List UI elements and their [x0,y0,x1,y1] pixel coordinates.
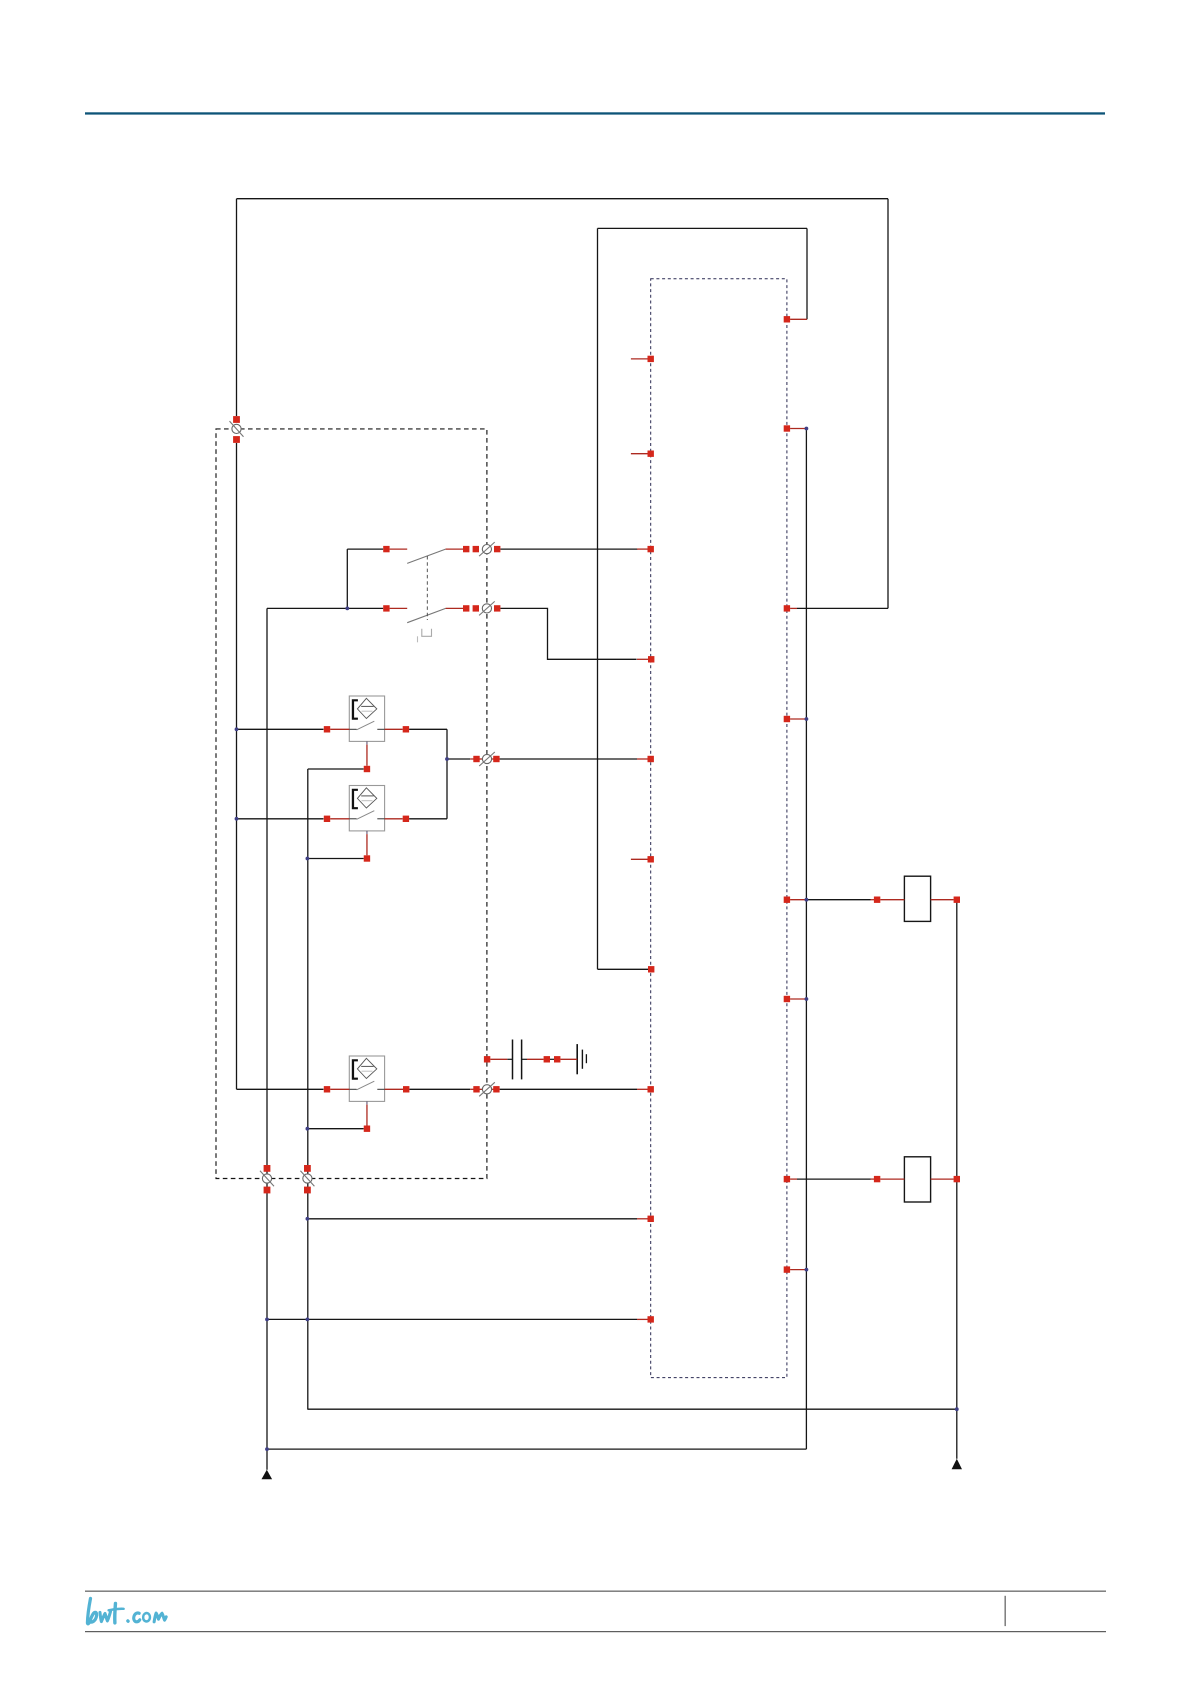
wire relay K1 right to ground bus [956,900,958,1459]
wire left riser 2 below S2 [266,608,268,1469]
red lead S1 right [446,548,463,550]
switch actuator symbol [422,629,432,637]
wire sensor B1 output drop [409,728,447,730]
wire inner frame right drop to X2:1 [806,228,808,319]
wire collector of B1/B2 [446,729,448,819]
dashed enclosure (controller, blue) [651,279,787,1378]
connector circle X4 [482,754,491,763]
connector circle X1 [232,424,241,433]
terminals relay K2 row [874,1176,880,1182]
wire inner frame bottom into X2 left edge [598,968,649,970]
wire sensor B2 output rise [409,818,447,820]
red leads relay K2 [871,1178,875,1180]
junction B1 feed tap [235,727,239,731]
wire S2 output jog [500,608,636,659]
red approach X2:8 [637,1218,648,1220]
wire inner frame top [598,227,808,229]
red approach X2:4b [637,658,648,660]
header rule [85,112,1105,114]
junction bus top X2:2 [805,427,809,431]
wire feed to sensor B3 [237,1088,324,1090]
footer separator [1005,1596,1006,1626]
terminal S1 left [383,546,389,552]
junction X2:9 row on riser2 [265,1318,269,1322]
connector circle S2 out [482,604,491,613]
red approach X2:4 [637,548,648,550]
terminals S1 right pair [463,546,469,552]
junction ground return on riser2 [265,1447,269,1451]
wire feed to sensor B1 [237,728,324,730]
red approach X2:7 [637,1088,648,1090]
red leads relay K1 [871,899,875,901]
dashed enclosure (left cabinet) [216,429,487,1179]
wire riser2 to X2:9 row [267,1318,637,1320]
red lead S2 left [390,607,408,609]
terminal X6 lower [264,1187,271,1194]
wire right bus return to riser2 [267,1448,806,1450]
proximity sensor B3 [349,1056,384,1105]
terminals relay K1 row [874,897,880,903]
wire X4 to X2:5 [500,758,637,760]
wire X3:1 feed from bus [806,899,870,901]
wire outer supply loop top [237,198,889,200]
proximity sensor B2 [349,786,384,835]
wire switch S2 row from left riser [267,607,383,609]
terminal S1 out [494,546,500,552]
wire X5 to X2:7 [500,1088,637,1090]
red lead X2:h to bus [790,1269,806,1271]
wire X3:2 row black segment [797,1178,871,1180]
wire outer loop into terminal X2:3 [797,607,888,609]
terminals B2 [324,816,330,822]
red lead X2:3 [790,607,797,609]
relay K1 [904,876,930,921]
terminals at X5 [473,1086,479,1092]
shield / functional earth symbol [576,1044,578,1074]
red lead X2:1 to inner frame [790,318,807,320]
terminal X7 lower [304,1187,311,1194]
red leads capacitor row [490,1058,507,1060]
wire feed to sensor B2 [237,818,324,820]
junction S1 drop on S2 row [345,607,349,611]
junction X2:9 row on riser3 [306,1318,310,1322]
wire switch S1 pole feed [347,548,383,550]
red lead B3 bottom [366,1105,368,1126]
red lead S1 left [390,548,408,550]
red lead into B2 [330,818,349,820]
red lead B2 bottom [366,834,368,855]
red lead B1 bottom [366,745,368,766]
red lead out B1 [385,728,403,730]
terminals B3 [324,1086,330,1092]
junction X2:8 row on riser3 [306,1217,310,1221]
red stub X2:b [631,453,648,455]
wire link S1 pole to S2 row [346,549,348,608]
capacitor C1 leads [507,1058,512,1060]
wire S1 output to X2:4 [500,548,637,550]
wire riser3 to X2:8 row [307,1218,637,1220]
red lead X2:d to bus [790,718,806,720]
connector circle X7 [303,1174,312,1183]
switch S1 blade [407,549,445,563]
connector circle S1 out [482,545,491,554]
red stub X2:a [631,358,648,360]
wire controller right bus [805,429,807,1450]
junction bus X2:d [805,717,809,721]
junction bus K1 feed [805,898,809,902]
terminals X2 left edge [648,356,654,362]
terminal S2 left [383,605,389,611]
red lead S2 right [446,607,463,609]
junction ground bus right [955,1407,959,1411]
junction B1/B2 collector [445,757,449,761]
terminal X7 upper [304,1165,311,1172]
junction B3 return on riser3 [306,1127,310,1131]
terminals X2 right edge [784,316,790,322]
terminal X6 upper [264,1165,271,1172]
capacitor C1 plates [512,1040,514,1080]
terminals B1 [324,726,330,732]
wire B1/B2 collector to connector X4 [447,758,470,760]
red lead into B3 [330,1088,349,1090]
red leads at connector X5 [470,1088,482,1090]
junction B2 feed tap [235,817,239,821]
terminals S2 right pair [463,605,469,611]
bwt.com logo [87,1599,166,1624]
red lead X2:2 to bus [790,428,806,430]
red lead X2:e to bus [790,899,806,901]
wire B3 bottom return [307,1128,363,1130]
red lead out B2 [385,818,403,820]
junction bus X2:h [805,1268,809,1272]
junction bus X2:f [805,997,809,1001]
wire left feeder upper segment [236,199,238,416]
red lead into B1 [330,728,349,730]
terminal S2 out [494,605,500,611]
red lead X2:g [790,1178,797,1180]
wire left feeder below connector X1 [236,443,238,1089]
red leads at connector X4 [470,758,482,760]
wire left riser 3 (sensor commons) [307,769,309,1409]
proximity sensor B1 [349,696,384,745]
junction B2 return on riser3 [306,857,310,861]
wire B3 output to connector X5 [409,1088,470,1090]
red approach X2:5 [637,758,648,760]
red lead X2:f to bus [790,998,806,1000]
terminal X1 lower [233,436,240,443]
footer rule bottom [85,1631,1106,1632]
footer rule top [85,1591,1106,1592]
off-page arrow right [952,1459,962,1470]
connector circle X6 [262,1174,271,1183]
terminals at X4 [473,756,479,762]
off-page arrow left [262,1470,273,1480]
wire B2 bottom return [307,858,363,860]
wire B1 bottom return [308,768,364,770]
relay K2 [904,1157,930,1202]
red approach X2:9 [637,1318,648,1320]
red lead out B3 [385,1088,403,1090]
switch S1/S2 coupling link [426,556,428,620]
connector circle X5 [482,1085,491,1094]
wire riser3 bottom to ground bus [307,1408,956,1410]
wire outer supply loop right drop [887,199,889,609]
wire inner frame left drop [597,228,599,969]
switch S2 blade [407,608,445,622]
terminals capacitor row [484,1056,490,1062]
terminal X1 upper [233,416,240,423]
red stub X2:c [631,858,648,860]
